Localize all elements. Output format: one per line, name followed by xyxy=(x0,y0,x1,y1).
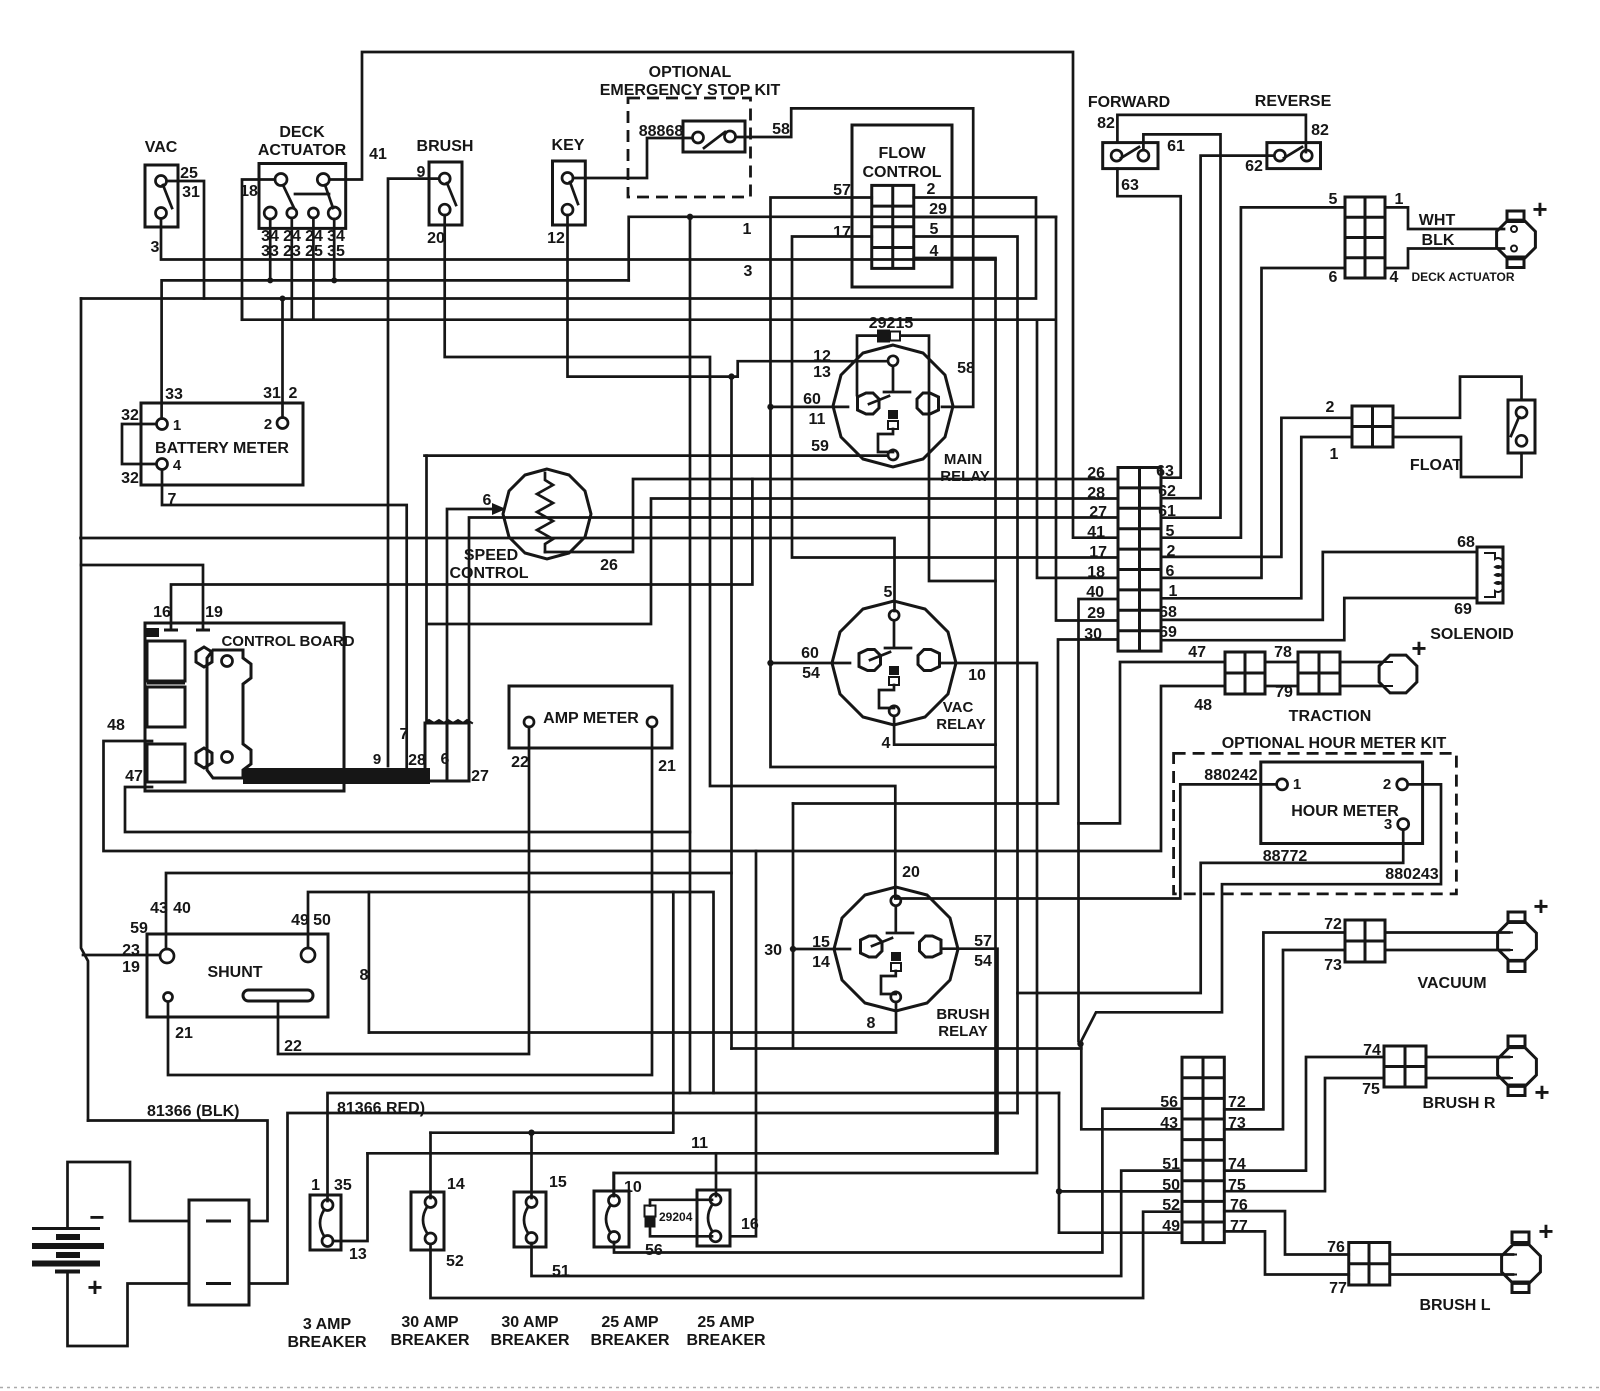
svg-text:DECK ACTUATOR: DECK ACTUATOR xyxy=(1411,270,1514,284)
svg-text:TRACTION: TRACTION xyxy=(1289,708,1372,725)
svg-text:81366 (BLK): 81366 (BLK) xyxy=(147,1103,239,1120)
svg-text:63: 63 xyxy=(1156,463,1174,480)
svg-text:SPEED: SPEED xyxy=(464,547,518,564)
wire 49/50 shunt riser to trunk 892 xyxy=(308,892,714,1093)
svg-text:7: 7 xyxy=(400,726,409,743)
wire 60 flow57 to main relay left pad xyxy=(771,406,849,409)
brush R connector J6 xyxy=(1384,1046,1426,1087)
svg-text:13: 13 xyxy=(813,364,831,381)
wire 10 breaker riser xyxy=(613,1173,616,1196)
wire 7 battery meter pin4 xyxy=(162,470,407,768)
svg-text:CONTROL: CONTROL xyxy=(862,164,941,181)
wire 30 row xyxy=(1058,640,1118,804)
wire 74/75 to brush R motor xyxy=(1426,1057,1509,1078)
svg-text:3: 3 xyxy=(744,263,753,280)
svg-text:31: 31 xyxy=(182,184,200,201)
svg-text:OPTIONAL HOUR METER KIT: OPTIONAL HOUR METER KIT xyxy=(1222,735,1447,752)
svg-text:61: 61 xyxy=(1167,138,1185,155)
wire 5 deck connector to main connector row 5 xyxy=(1161,207,1345,537)
svg-text:19: 19 xyxy=(205,604,223,621)
svg-text:EMERGENCY STOP KIT: EMERGENCY STOP KIT xyxy=(600,82,781,99)
svg-text:49: 49 xyxy=(291,912,309,929)
svg-text:58: 58 xyxy=(772,121,790,138)
wire 31/2 battery meter pin2 riser xyxy=(281,299,284,418)
svg-text:25: 25 xyxy=(180,165,198,182)
wire 28 control block to row 28 xyxy=(427,499,1118,625)
svg-text:+: + xyxy=(87,1272,102,1302)
node trunk junction x242 xyxy=(241,299,244,320)
wire 11/13 trunk xyxy=(368,1152,998,1155)
svg-text:14: 14 xyxy=(447,1176,465,1193)
svg-text:FLOAT: FLOAT xyxy=(1410,457,1462,474)
svg-text:41: 41 xyxy=(369,146,387,163)
svg-text:20: 20 xyxy=(902,864,920,881)
svg-text:RELAY: RELAY xyxy=(938,1023,987,1040)
traction motor M2 xyxy=(1379,655,1417,693)
wire 60/54 into vac relay xyxy=(771,662,851,665)
svg-text:KEY: KEY xyxy=(552,137,585,154)
wire 25/31 from VAC top terminal xyxy=(167,181,204,299)
switch 88868 xyxy=(683,121,745,152)
wire 72/73 to vacuum motor xyxy=(1385,933,1509,951)
svg-text:5: 5 xyxy=(1329,191,1338,208)
svg-text:RELAY: RELAY xyxy=(936,716,985,733)
BRUSH switch S3 xyxy=(429,162,462,225)
BRUSH RELAY K3 xyxy=(834,887,958,1011)
svg-text:DECK: DECK xyxy=(279,124,325,141)
CONTROL BOARD xyxy=(145,623,344,791)
wire float connector to float switch top xyxy=(1393,377,1522,418)
svg-text:62: 62 xyxy=(1245,158,1263,175)
svg-text:28: 28 xyxy=(408,752,426,769)
wire 76 row to brush L connector xyxy=(1224,1211,1348,1254)
wire 12 key to main relay coil xyxy=(568,215,887,377)
wire 14/15 trunk xyxy=(431,892,674,1133)
wire 1 WHT to deck actuator motor xyxy=(1385,207,1504,229)
wire 18 xyxy=(242,180,275,320)
svg-text:CONTROL: CONTROL xyxy=(449,565,528,582)
svg-text:60: 60 xyxy=(801,645,819,662)
wire 48 control board xyxy=(104,686,1226,851)
wire 47 riser x690 xyxy=(689,217,692,1093)
svg-text:RELAY: RELAY xyxy=(940,468,989,485)
deck actuator switch S2 xyxy=(259,164,346,229)
svg-text:6: 6 xyxy=(1166,563,1175,580)
control board pin 16 xyxy=(164,629,178,632)
svg-text:5: 5 xyxy=(884,584,893,601)
wire 1 trunk xyxy=(629,217,1056,281)
TRACTION connectors xyxy=(1225,652,1265,694)
svg-text:6: 6 xyxy=(1329,269,1338,286)
wire 74 brush R connector to row 74 xyxy=(1224,1057,1384,1171)
wire battery minus xyxy=(68,1162,190,1229)
svg-text:75: 75 xyxy=(1362,1081,1380,1098)
BRUSH R motor M4 xyxy=(1498,1036,1537,1096)
diode 29204 assembly xyxy=(650,1200,712,1237)
second connector J4 xyxy=(1182,1057,1224,1242)
30 AMP BREAKER CB3 xyxy=(514,1192,546,1247)
wire 88772 hour meter pin3 xyxy=(1018,830,1404,993)
wire 50 row xyxy=(1059,1190,1182,1193)
control board left modules xyxy=(147,641,185,681)
svg-text:52: 52 xyxy=(446,1253,464,1270)
svg-text:880243: 880243 xyxy=(1385,866,1438,883)
svg-text:AMP METER: AMP METER xyxy=(543,710,639,727)
svg-text:+: + xyxy=(1411,633,1426,663)
svg-text:FLOW: FLOW xyxy=(878,145,926,162)
wire 69 solenoid to row 69 xyxy=(1161,598,1477,640)
wire 13 from 3 amp breaker xyxy=(333,1153,368,1241)
svg-text:BRUSH L: BRUSH L xyxy=(1419,1297,1490,1314)
svg-text:13: 13 xyxy=(349,1246,367,1263)
wire 880242 hour meter pin1 to brush relay xyxy=(895,784,1276,898)
svg-text:25 AMP: 25 AMP xyxy=(601,1314,659,1331)
wire battery plus xyxy=(68,1272,190,1347)
wire 29 trunk (flow 29 riser to trunk 320) xyxy=(242,217,1118,621)
svg-text:82: 82 xyxy=(1097,115,1115,132)
svg-text:REVERSE: REVERSE xyxy=(1255,93,1332,110)
svg-text:1: 1 xyxy=(1293,776,1301,793)
svg-text:30 AMP: 30 AMP xyxy=(401,1314,459,1331)
svg-text:+: + xyxy=(1534,1077,1549,1107)
svg-text:14: 14 xyxy=(812,954,830,971)
svg-text:BREAKER: BREAKER xyxy=(390,1332,470,1349)
svg-text:52: 52 xyxy=(1162,1197,1180,1214)
wire 24/25 deck pin riser xyxy=(312,218,315,320)
svg-text:17: 17 xyxy=(1089,544,1107,561)
svg-text:16: 16 xyxy=(153,604,171,621)
svg-text:BREAKER: BREAKER xyxy=(287,1334,367,1351)
wire 56 xyxy=(614,1109,1182,1253)
svg-text:1: 1 xyxy=(743,221,752,238)
svg-text:21: 21 xyxy=(658,758,676,775)
svg-text:1: 1 xyxy=(173,417,181,434)
wire 19 control board xyxy=(81,565,203,628)
SPEED CONTROL R1 xyxy=(503,469,591,559)
wire 8/20 loop риser x793 xyxy=(792,804,795,1048)
svg-text:4: 4 xyxy=(882,735,891,752)
wire 63 forward to connector row 63 xyxy=(1117,169,1180,478)
wire 81366 RED xyxy=(249,1113,1018,1284)
svg-text:26: 26 xyxy=(600,557,618,574)
svg-text:880242: 880242 xyxy=(1204,767,1257,784)
svg-text:48: 48 xyxy=(1194,697,1212,714)
svg-text:6: 6 xyxy=(483,492,492,509)
svg-text:VAC: VAC xyxy=(943,699,974,716)
wire 52 xyxy=(431,1212,1183,1298)
wire 4 vac relay bottom xyxy=(894,716,995,745)
svg-text:15: 15 xyxy=(549,1174,567,1191)
svg-text:40: 40 xyxy=(173,900,191,917)
svg-text:BREAKER: BREAKER xyxy=(686,1332,766,1349)
svg-text:69: 69 xyxy=(1454,601,1472,618)
svg-text:1: 1 xyxy=(1395,191,1404,208)
svg-text:48: 48 xyxy=(107,717,125,734)
svg-text:63: 63 xyxy=(1121,177,1139,194)
25 AMP BREAKER CB4 xyxy=(594,1191,629,1247)
float connector J3 xyxy=(1352,406,1393,447)
svg-text:76: 76 xyxy=(1327,1239,1345,1256)
wire 10 vac relay to breaker trunk xyxy=(614,663,1037,1196)
OPTIONAL HOUR METER KIT dashed box xyxy=(1174,753,1457,894)
wire 41 deck to top trunk to connector row 41 xyxy=(329,52,1118,538)
svg-text:54: 54 xyxy=(974,953,992,970)
svg-text:5: 5 xyxy=(1166,523,1175,540)
wire 8 riser x368.9 xyxy=(368,892,371,1033)
svg-text:22: 22 xyxy=(284,1038,302,1055)
svg-text:BLK: BLK xyxy=(1422,232,1455,249)
wire 5 trunk xyxy=(81,538,895,611)
wire 43 trunk to hour meter net xyxy=(732,1047,1082,1050)
wire key top to emergency stop xyxy=(573,138,691,178)
svg-text:2: 2 xyxy=(1383,776,1391,793)
wire 4 flow control right to mega vertical xyxy=(914,258,996,1153)
svg-text:32: 32 xyxy=(121,470,139,487)
svg-text:69: 69 xyxy=(1159,624,1177,641)
svg-text:81366 RED): 81366 RED) xyxy=(337,1100,425,1117)
svg-text:3: 3 xyxy=(1384,816,1392,833)
MAIN RELAY K1 xyxy=(833,345,953,467)
svg-text:5: 5 xyxy=(930,221,939,238)
svg-text:32: 32 xyxy=(121,407,139,424)
svg-text:22: 22 xyxy=(511,754,529,771)
wire 5 flow control right to trunk 538 xyxy=(914,237,1018,1114)
svg-text:2: 2 xyxy=(289,385,298,402)
optional emergency stop kit dashed box xyxy=(628,98,751,197)
svg-text:9: 9 xyxy=(373,751,381,768)
svg-text:60: 60 xyxy=(803,391,821,408)
svg-text:73: 73 xyxy=(1324,957,1342,974)
svg-text:3: 3 xyxy=(151,239,160,256)
wire 2 float to main connector row 2 xyxy=(1161,418,1352,557)
svg-text:29204: 29204 xyxy=(659,1210,693,1224)
battery BT1 xyxy=(32,1227,100,1230)
wire 8 top loop xyxy=(793,802,1058,805)
svg-text:29: 29 xyxy=(929,201,947,218)
wire 47 control board xyxy=(125,787,690,832)
wire 49 row xyxy=(1059,1231,1182,1234)
svg-text:3 AMP: 3 AMP xyxy=(303,1316,352,1333)
wire 20 brush to brush relay xyxy=(445,215,896,897)
svg-text:BATTERY METER: BATTERY METER xyxy=(155,440,289,457)
svg-text:10: 10 xyxy=(968,667,986,684)
svg-text:12: 12 xyxy=(813,348,831,365)
svg-text:1: 1 xyxy=(1330,446,1339,463)
svg-text:SHUNT: SHUNT xyxy=(207,964,262,981)
AMP METER xyxy=(509,686,672,748)
speed control connector block xyxy=(425,723,469,781)
svg-text:4: 4 xyxy=(930,243,939,260)
svg-text:4: 4 xyxy=(1390,269,1399,286)
diode 29215 xyxy=(877,330,890,343)
svg-text:57: 57 xyxy=(833,182,851,199)
svg-text:BRUSH R: BRUSH R xyxy=(1423,1095,1496,1112)
wire 18 row from riser x1037 xyxy=(1037,320,1118,578)
25 AMP BREAKER CB5 xyxy=(697,1190,730,1246)
wire 34/33 deck pin riser xyxy=(269,219,272,280)
wire 72 vacuum connector to row 72 xyxy=(1224,933,1345,1110)
svg-text:56: 56 xyxy=(1160,1094,1178,1111)
svg-text:1: 1 xyxy=(311,1177,320,1194)
wire 59 trunk to main relay bottom pin xyxy=(425,454,889,457)
wire 21 amp meter to shunt xyxy=(168,727,652,1075)
wire 62 reverse to connector row 62 xyxy=(1161,156,1274,499)
page bottom dotted line xyxy=(0,1387,1600,1389)
svg-text:15: 15 xyxy=(812,934,830,951)
svg-text:56: 56 xyxy=(645,1242,663,1259)
wire 4 BLK to deck actuator motor xyxy=(1385,249,1504,269)
wire 40/47 riser to traction xyxy=(1079,662,1226,823)
svg-text:BREAKER: BREAKER xyxy=(590,1332,670,1349)
svg-text:35: 35 xyxy=(334,1177,352,1194)
wire 8 brush relay bottom trunk xyxy=(369,1002,896,1033)
VACUUM motor M3 xyxy=(1498,912,1537,972)
wire 32 loop xyxy=(122,424,156,464)
svg-text:20: 20 xyxy=(427,230,445,247)
svg-text:BREAKER: BREAKER xyxy=(490,1332,570,1349)
wire 880243 hour meter pin2 xyxy=(1081,784,1441,1129)
HOUR METER xyxy=(1261,762,1423,844)
svg-text:−: − xyxy=(89,1202,104,1232)
wire 81366 BLK xyxy=(88,1121,268,1222)
svg-text:VACUUM: VACUUM xyxy=(1417,975,1486,992)
wire 51 xyxy=(532,1171,1183,1276)
wire 57 flow control left xyxy=(771,198,996,768)
flow control connector grid xyxy=(872,185,914,268)
battery connector block xyxy=(189,1200,249,1305)
wire 59/28 riser x426.5 xyxy=(425,456,428,723)
control board heatsink xyxy=(207,650,251,778)
svg-text:51: 51 xyxy=(552,1263,570,1280)
svg-text:27: 27 xyxy=(471,768,489,785)
svg-text:12: 12 xyxy=(547,230,565,247)
wire 6 deck connector to main connector row 6 xyxy=(1161,268,1345,578)
svg-text:+: + xyxy=(1538,1216,1553,1246)
svg-text:8: 8 xyxy=(867,1015,876,1032)
BATTERY METER xyxy=(141,403,303,485)
svg-text:16: 16 xyxy=(741,1216,759,1233)
BRUSH L motor M5 xyxy=(1502,1232,1541,1293)
wire 24/23 deck pin riser xyxy=(290,218,293,320)
svg-text:+: + xyxy=(1533,891,1548,921)
wire 73 vacuum connector to row 73 xyxy=(1224,950,1345,1129)
wire 33 trunk xyxy=(162,280,629,418)
svg-text:VAC: VAC xyxy=(145,139,178,156)
svg-text:41: 41 xyxy=(1087,524,1105,541)
svg-text:SOLENOID: SOLENOID xyxy=(1430,626,1514,643)
wire 17 flow control to connector row 17 xyxy=(792,237,1118,558)
30 AMP BREAKER CB2 xyxy=(411,1192,444,1250)
wire 1 float to main connector row 1 xyxy=(1161,437,1352,598)
wire 13 junction and riser xyxy=(728,373,734,379)
vacuum connector J5 xyxy=(1345,920,1385,962)
svg-text:MAIN: MAIN xyxy=(944,451,982,468)
wire 76/77 to brush L motor xyxy=(1390,1255,1513,1275)
svg-text:43: 43 xyxy=(1160,1115,1178,1132)
svg-text:33: 33 xyxy=(165,386,183,403)
deck actuator motor M1 xyxy=(1497,211,1536,268)
svg-text:74: 74 xyxy=(1363,1042,1381,1059)
svg-text:10: 10 xyxy=(624,1179,642,1196)
svg-text:61: 61 xyxy=(1158,503,1176,520)
wire 2 trunk (flow control 2 to control board 19 riser) xyxy=(81,198,1036,299)
svg-text:68: 68 xyxy=(1457,534,1475,551)
wire 30/15/14 brush relay xyxy=(793,948,850,951)
svg-text:25 AMP: 25 AMP xyxy=(697,1314,755,1331)
wire 34/35 deck pin riser xyxy=(333,219,336,280)
float switch xyxy=(1508,400,1535,453)
wire float switch bottom loop xyxy=(1393,437,1522,477)
wire 61 forward to connector row 61 xyxy=(1143,134,1220,517)
wire 11 riser to 25A breaker 2 xyxy=(715,1153,718,1196)
wire 6 speed control arrow xyxy=(447,509,494,723)
svg-text:11: 11 xyxy=(809,411,826,428)
svg-text:31: 31 xyxy=(263,385,281,402)
svg-text:2: 2 xyxy=(927,181,936,198)
svg-text:2: 2 xyxy=(264,416,272,433)
wire 16 control board trunk xyxy=(171,479,752,628)
svg-text:+: + xyxy=(1532,194,1547,224)
svg-text:54: 54 xyxy=(802,665,820,682)
svg-text:BRUSH: BRUSH xyxy=(417,138,474,155)
wire 2/19 vertical x81 xyxy=(81,299,88,1121)
wire 3 from VAC bottom terminal xyxy=(161,219,996,260)
wire 57/54 brush relay to trunk xyxy=(941,949,998,1154)
svg-text:79: 79 xyxy=(1275,684,1293,701)
svg-text:88868: 88868 xyxy=(639,123,684,140)
wire 58 to main relay right pad xyxy=(736,108,973,407)
control board black bar xyxy=(243,768,430,784)
svg-text:68: 68 xyxy=(1159,604,1177,621)
wire 22 amp meter to shunt slot xyxy=(278,727,529,1054)
wire 75 brush R connector to row 75 xyxy=(1224,1078,1384,1191)
svg-text:30 AMP: 30 AMP xyxy=(501,1314,559,1331)
svg-text:59: 59 xyxy=(130,920,148,937)
svg-text:29215: 29215 xyxy=(869,315,914,332)
svg-text:77: 77 xyxy=(1329,1280,1347,1297)
svg-text:21: 21 xyxy=(175,1025,193,1042)
svg-text:FORWARD: FORWARD xyxy=(1088,94,1170,111)
deck actuator connector J2 xyxy=(1345,197,1385,278)
svg-text:CONTROL BOARD: CONTROL BOARD xyxy=(221,633,354,650)
svg-text:19: 19 xyxy=(122,959,140,976)
wire 1/35 trunk from 3 amp breaker xyxy=(328,1093,1060,1201)
FLOW CONTROL box xyxy=(852,125,952,287)
svg-text:78: 78 xyxy=(1274,644,1292,661)
wire 26 speed control to row 26 xyxy=(545,479,1118,552)
brush L connector J7 xyxy=(1349,1243,1390,1286)
svg-text:30: 30 xyxy=(764,942,782,959)
SHUNT xyxy=(147,934,328,1017)
svg-text:82: 82 xyxy=(1311,122,1329,139)
3 AMP BREAKER CB1 xyxy=(310,1195,341,1250)
wire 82 trunk xyxy=(1117,115,1306,152)
svg-text:51: 51 xyxy=(1162,1156,1180,1173)
svg-text:BRUSH: BRUSH xyxy=(936,1006,989,1023)
svg-text:72: 72 xyxy=(1324,916,1342,933)
svg-text:OPTIONAL: OPTIONAL xyxy=(649,64,732,81)
VAC switch S1 xyxy=(145,165,178,227)
wire 77 row to brush L connector xyxy=(1224,1231,1348,1274)
svg-text:11: 11 xyxy=(691,1135,708,1152)
VAC RELAY K2 xyxy=(832,601,956,725)
svg-text:29: 29 xyxy=(1087,605,1105,622)
wire 23/19 into shunt xyxy=(83,954,160,957)
svg-text:2: 2 xyxy=(1326,399,1335,416)
svg-text:35: 35 xyxy=(327,243,345,260)
svg-text:6: 6 xyxy=(441,751,450,768)
svg-text:23: 23 xyxy=(122,942,140,959)
